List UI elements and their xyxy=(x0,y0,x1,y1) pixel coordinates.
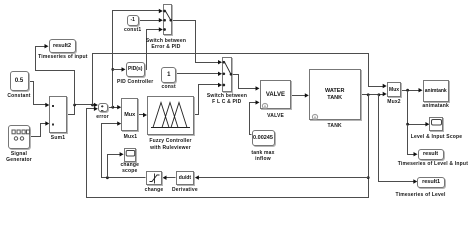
block VALVE xyxy=(260,80,292,109)
wire change signal to change scope xyxy=(108,152,124,177)
block error sum xyxy=(98,103,109,112)
wire setpoint to Mux2 input 1 xyxy=(93,54,387,105)
icon valve subsystem glyph xyxy=(261,102,269,110)
label Mux1 xyxy=(124,134,138,140)
wire du/dt output to change xyxy=(163,176,176,180)
wire Mux2 output to Level & Input Scope xyxy=(408,91,430,127)
block const xyxy=(161,67,176,83)
block Signal Generator xyxy=(8,125,30,149)
label Mux2 xyxy=(387,99,401,105)
node Mux2 output junction xyxy=(406,89,409,92)
wire Switch between FLC & PID output to VALVE input 1 xyxy=(233,75,260,91)
label Constant xyxy=(7,93,30,99)
wire error output to Mux1 input 1 xyxy=(109,105,122,109)
label const xyxy=(162,84,176,90)
wire Fuzzy Controller output to Switch between FLC & PID input 3 xyxy=(195,83,223,115)
label change xyxy=(145,187,164,193)
node tank output junction A xyxy=(367,93,370,96)
label Derivative xyxy=(172,187,198,193)
block change xyxy=(146,171,163,185)
label tank max inflow xyxy=(251,150,274,156)
label PID Controller xyxy=(117,79,153,85)
icon tank subsystem glyph xyxy=(311,113,319,121)
label Level & Input Scope xyxy=(411,134,463,140)
wire WATER TANK output to Mux2 input 2 xyxy=(361,92,387,96)
block Mux1 xyxy=(121,98,138,131)
wire setpoint to result2 xyxy=(36,44,75,105)
icon switch FLC & PID xyxy=(221,56,234,93)
node setpoint junction xyxy=(73,104,76,107)
label Fuzzy Controller with Ruleviewer xyxy=(149,138,191,144)
block Level & Input Scope xyxy=(429,117,443,131)
label Switch between FLC & PID xyxy=(207,93,247,99)
wire const to Switch between FLC & PID input 2 xyxy=(177,72,223,76)
block animtank xyxy=(423,80,450,102)
label Signal Generator xyxy=(11,151,27,157)
label error xyxy=(96,114,109,120)
wire error to PID Controller input xyxy=(113,67,126,71)
block tank max inflow 0.00245 xyxy=(252,130,275,146)
label Timeseries of Level xyxy=(395,192,445,198)
block const1 xyxy=(127,15,139,26)
wire tank level to du/dt Derivative xyxy=(195,175,369,179)
block Sum1 xyxy=(49,96,67,133)
label const1 xyxy=(124,27,141,33)
node derivative tap junction xyxy=(367,176,370,179)
block result2 xyxy=(49,39,76,53)
label TANK xyxy=(328,123,342,129)
wire Mux2 output to animtank xyxy=(402,88,423,92)
node setpoint to Mux2 junction xyxy=(91,104,94,107)
wire tank level down to derivative row xyxy=(368,95,370,178)
label Switch between Error & PID xyxy=(146,38,186,44)
wire VALVE output to WATER TANK xyxy=(292,93,309,97)
wire signal generator to Sum1 xyxy=(31,121,50,136)
label VALVE xyxy=(267,113,284,119)
wire tank level feedback to error block xyxy=(87,107,369,198)
block result xyxy=(418,149,444,160)
label Sum1 xyxy=(51,135,65,141)
block Mux2 xyxy=(387,82,402,97)
block du/dt Derivative xyxy=(176,171,194,185)
block result1 xyxy=(417,177,445,189)
wire Switch between Error & PID output to Switch between FLC & PID input 1 xyxy=(172,21,223,65)
wire PID Controller output to Switch between Error & PID input 3 xyxy=(145,27,163,69)
wire tank max inflow constant to VALVE input 2 xyxy=(250,100,260,134)
node error output junction xyxy=(111,106,114,109)
label Timeseries of input xyxy=(38,54,88,60)
block WATER TANK xyxy=(309,69,361,120)
block change scope xyxy=(124,148,136,162)
label change scope xyxy=(120,162,139,168)
block Constant 0.5 xyxy=(10,71,29,91)
wire Mux1 output to Fuzzy Controller xyxy=(139,113,148,117)
label animatank xyxy=(422,103,449,109)
block Switch between FLC & PID xyxy=(222,57,232,92)
label Timeseries of Level & Input xyxy=(398,161,468,167)
node error to PID junction xyxy=(111,68,114,71)
node scope branch junction xyxy=(406,123,409,126)
wire const1 to Switch between Error & PID input 2 xyxy=(139,18,163,22)
wire tank level to result1 xyxy=(379,95,418,184)
wire constant 0.5 to Sum1 xyxy=(29,82,50,108)
wire Mux2 output to result xyxy=(408,125,418,157)
block PID Controller xyxy=(126,62,145,77)
block Fuzzy Controller with Ruleviewer xyxy=(147,96,194,135)
wire change output to Mux1 input 2 xyxy=(102,121,146,177)
wire Sum1 output to error block xyxy=(67,103,98,115)
wire error to Switch between Error & PID input 1 xyxy=(113,9,163,108)
icon switch Error & PID xyxy=(162,4,174,37)
block Switch between Error & PID xyxy=(163,4,172,35)
node tank output junction B xyxy=(378,93,381,96)
node change scope tap junction xyxy=(106,176,109,179)
